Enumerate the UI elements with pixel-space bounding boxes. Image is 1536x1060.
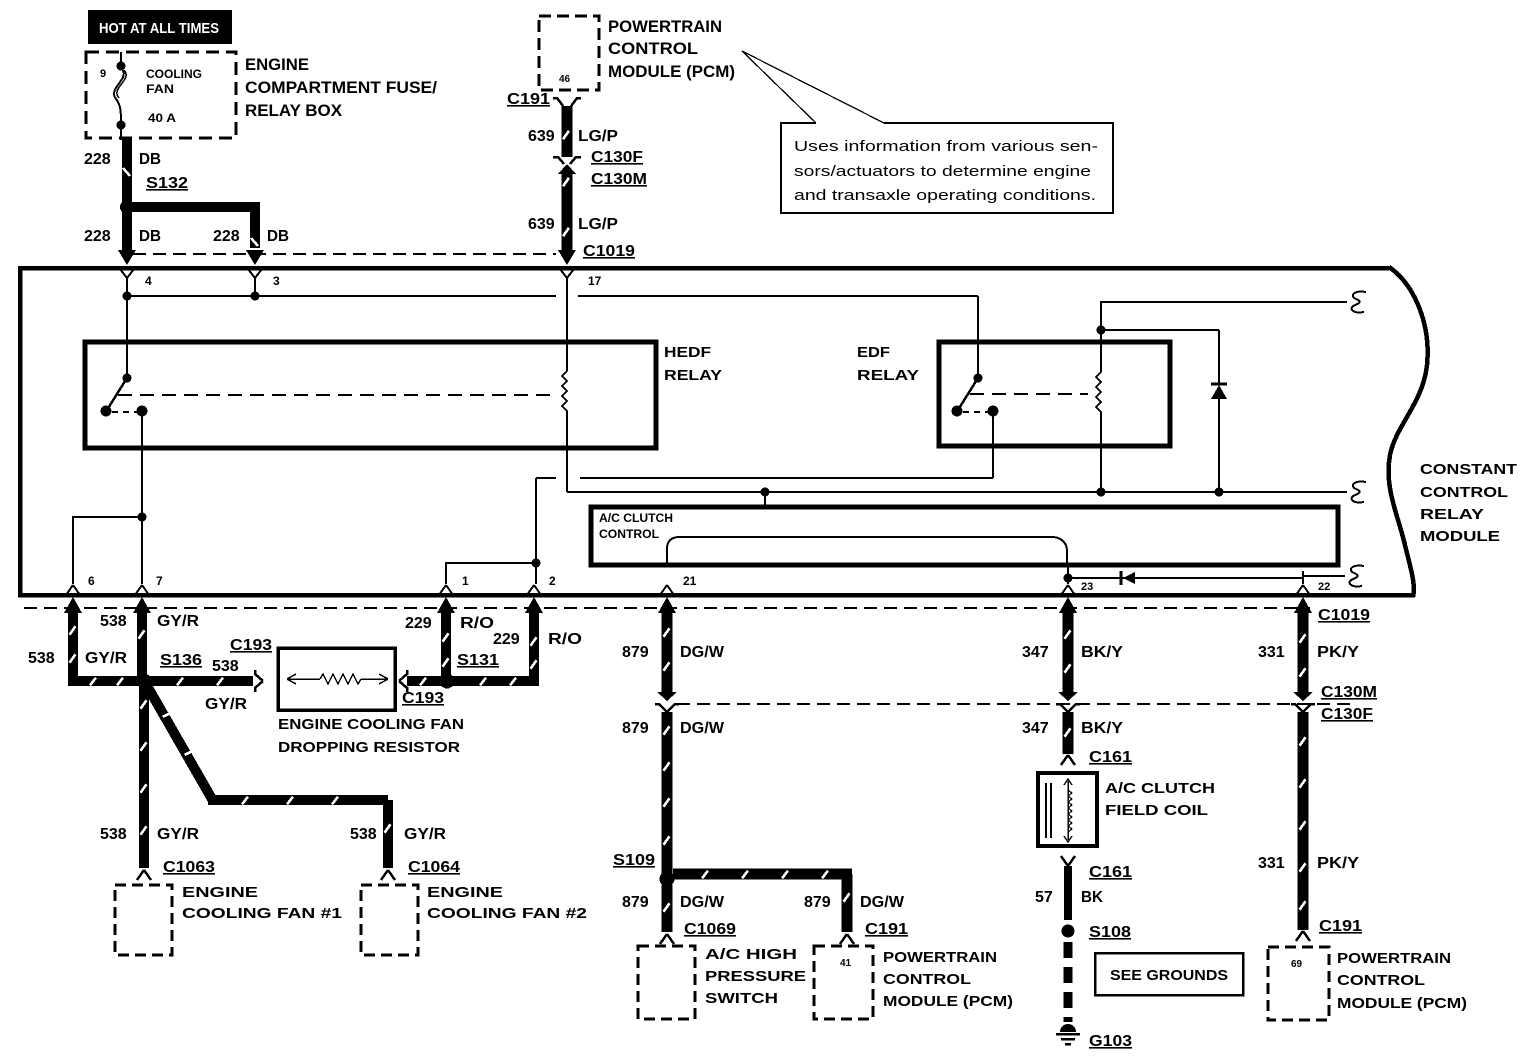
see grounds box xyxy=(1095,953,1243,995)
svg-text:RELAY BOX: RELAY BOX xyxy=(245,101,343,120)
svg-text:9: 9 xyxy=(100,68,106,80)
pin 17 (CCRM) xyxy=(560,269,574,371)
svg-text:DB: DB xyxy=(139,228,161,245)
svg-text:COOLING: COOLING xyxy=(146,67,202,81)
svg-text:40 A: 40 A xyxy=(148,111,176,125)
svg-text:879: 879 xyxy=(622,894,649,911)
svg-text:C193: C193 xyxy=(402,690,444,707)
svg-text:and transaxle operating condit: and transaxle operating conditions. xyxy=(794,187,1096,204)
svg-text:C193: C193 xyxy=(230,637,272,654)
svg-text:G103: G103 xyxy=(1089,1033,1132,1050)
svg-text:2: 2 xyxy=(549,574,556,588)
fuse: cooling fan 40A xyxy=(114,52,126,140)
wire 879 DG/W pin 21 (lower) to S109 xyxy=(662,712,673,874)
wire 347 BK/Y pin 23 (upper) xyxy=(1059,597,1077,613)
svg-text:HEDF: HEDF xyxy=(664,344,711,361)
svg-text:RELAY: RELAY xyxy=(857,367,919,384)
wire HEDF switch output to pins 6/7 xyxy=(141,411,143,517)
powertrain control module PCM (pin 41) dashed box xyxy=(814,946,873,1019)
powertrain control module PCM (top) dashed box xyxy=(539,16,599,90)
connector C193 (right) xyxy=(399,670,407,692)
svg-text:41: 41 xyxy=(840,958,852,969)
svg-text:ENGINE: ENGINE xyxy=(427,884,503,901)
connector C1019 dashed line (bottom) xyxy=(24,607,1310,609)
svg-text:R/O: R/O xyxy=(548,631,582,648)
svg-text:S136: S136 xyxy=(160,652,202,669)
svg-text:229: 229 xyxy=(405,615,432,632)
svg-text:A/C HIGH: A/C HIGH xyxy=(705,946,797,963)
svg-text:ENGINE COOLING FAN: ENGINE COOLING FAN xyxy=(278,716,464,733)
svg-text:S131: S131 xyxy=(457,652,499,669)
svg-text:538: 538 xyxy=(350,826,377,843)
wire 538 GY/R pin 7 xyxy=(133,597,151,613)
svg-text:3: 3 xyxy=(273,274,280,288)
A/C clutch control box xyxy=(591,507,1338,565)
svg-text:C130M: C130M xyxy=(591,171,647,188)
svg-text:ENGINE: ENGINE xyxy=(245,55,309,74)
svg-text:GY/R: GY/R xyxy=(157,613,199,630)
wire 879 DG/W pin 21 (upper) xyxy=(658,597,676,613)
inline connector C130M/C130F on pin-22 wire xyxy=(1293,692,1313,701)
wire 639 LG/P (upper) xyxy=(562,106,573,157)
svg-text:22: 22 xyxy=(1318,581,1330,593)
svg-text:POWERTRAIN: POWERTRAIN xyxy=(608,17,722,36)
svg-text:538: 538 xyxy=(100,826,127,843)
supply rail from pins 4/3 xyxy=(127,295,556,297)
svg-text:17: 17 xyxy=(588,274,602,288)
svg-text:DB: DB xyxy=(267,228,289,245)
engine compartment fuse/relay box (dashed) xyxy=(86,52,236,138)
svg-text:7: 7 xyxy=(156,574,163,588)
svg-text:MODULE: MODULE xyxy=(1420,528,1500,545)
wire 538 GY/R S136 to C193 xyxy=(150,676,253,686)
svg-text:GY/R: GY/R xyxy=(85,650,127,667)
EDF coil top feed and snubber diode branch xyxy=(1097,326,1106,335)
svg-text:RELAY: RELAY xyxy=(664,367,722,384)
svg-text:S109: S109 xyxy=(613,852,655,869)
HEDF relay actuation dashed link xyxy=(118,394,552,396)
svg-text:MODULE (PCM): MODULE (PCM) xyxy=(1337,995,1467,1012)
svg-text:C130M: C130M xyxy=(1321,684,1377,701)
svg-text:C1019: C1019 xyxy=(583,243,635,260)
A/C clutch control output line xyxy=(667,537,1067,565)
svg-text:331: 331 xyxy=(1258,644,1285,661)
svg-text:879: 879 xyxy=(622,720,649,737)
svg-text:S132: S132 xyxy=(146,175,188,192)
svg-text:BK/Y: BK/Y xyxy=(1081,644,1123,661)
svg-text:CONTROL: CONTROL xyxy=(1337,972,1425,989)
wire 538 GY/R S136 to fan 1 xyxy=(139,687,149,868)
svg-text:EDF: EDF xyxy=(857,344,890,361)
engine cooling fan dropping resistor xyxy=(278,648,395,710)
svg-text:LG/P: LG/P xyxy=(578,216,618,233)
svg-text:A/C CLUTCH: A/C CLUTCH xyxy=(599,511,673,525)
svg-text:C161: C161 xyxy=(1089,864,1132,881)
svg-text:538: 538 xyxy=(100,613,127,630)
svg-text:DG/W: DG/W xyxy=(860,894,905,911)
connector C161 (lower) xyxy=(1061,856,1075,866)
engine cooling fan #1 (dashed box) xyxy=(115,885,172,955)
svg-text:SWITCH: SWITCH xyxy=(705,990,778,1007)
svg-text:GY/R: GY/R xyxy=(157,826,199,843)
label: engine compartment fuse/relay box xyxy=(245,55,437,120)
wire 331 PK/Y to PCM C191 xyxy=(1298,712,1309,930)
ground G103 xyxy=(1060,1024,1076,1032)
svg-text:BK: BK xyxy=(1081,889,1103,906)
A/C clutch field coil xyxy=(1038,773,1097,846)
EDF relay box xyxy=(939,342,1170,446)
svg-text:MODULE (PCM): MODULE (PCM) xyxy=(883,993,1013,1010)
svg-text:HOT AT ALL TIMES: HOT AT ALL TIMES xyxy=(99,20,219,37)
diode (EDF coil clamp) xyxy=(1211,383,1227,386)
svg-text:FAN: FAN xyxy=(146,82,174,96)
wire 228 DB to pin 4 xyxy=(122,207,132,250)
wire 879 DG/W S109 to C1069 xyxy=(662,885,673,932)
wire 538 GY/R pin 6 xyxy=(64,597,82,613)
svg-text:BK/Y: BK/Y xyxy=(1081,720,1123,737)
svg-text:879: 879 xyxy=(804,894,831,911)
svg-text:228: 228 xyxy=(213,228,240,245)
HEDF relay coil xyxy=(562,371,567,412)
svg-text:POWERTRAIN: POWERTRAIN xyxy=(1337,950,1451,967)
common coil-return line xyxy=(566,490,568,492)
HEDF relay switch xyxy=(126,296,128,376)
EDF relay coil xyxy=(1096,372,1101,414)
svg-text:R/O: R/O xyxy=(460,615,494,632)
svg-text:C161: C161 xyxy=(1089,749,1132,766)
svg-text:23: 23 xyxy=(1081,581,1093,593)
svg-text:MODULE (PCM): MODULE (PCM) xyxy=(608,62,735,81)
svg-text:DROPPING RESISTOR: DROPPING RESISTOR xyxy=(278,739,460,756)
EDF relay actuation dashed link xyxy=(970,393,1088,395)
svg-text:C191: C191 xyxy=(1319,918,1362,935)
pin 4 (CCRM) xyxy=(120,269,134,296)
svg-text:CONTROL: CONTROL xyxy=(883,971,971,988)
svg-text:LG/P: LG/P xyxy=(578,128,618,145)
svg-text:DG/W: DG/W xyxy=(680,894,725,911)
pin 23 junction and diode line to pin 22 xyxy=(1064,574,1073,583)
svg-text:4: 4 xyxy=(145,274,152,288)
svg-text:C1063: C1063 xyxy=(163,859,215,876)
svg-text:RELAY: RELAY xyxy=(1420,506,1484,523)
svg-text:DG/W: DG/W xyxy=(680,720,725,737)
svg-text:538: 538 xyxy=(212,658,239,675)
svg-text:C1069: C1069 xyxy=(684,921,736,938)
pin 3 (CCRM) xyxy=(248,269,262,296)
svg-text:CONTROL: CONTROL xyxy=(608,39,698,58)
svg-text:538: 538 xyxy=(28,650,55,667)
wire 228 DB branch to pin 3 xyxy=(127,207,255,248)
wire 538 GY/R S136 to fan 2 (diagonal) xyxy=(146,684,212,799)
svg-text:57: 57 xyxy=(1035,889,1053,906)
svg-text:Uses information from various: Uses information from various sen- xyxy=(794,138,1098,155)
wire 347 BK/Y to C161 xyxy=(1063,712,1074,754)
svg-text:21: 21 xyxy=(683,574,697,588)
svg-text:639: 639 xyxy=(528,128,555,145)
svg-text:347: 347 xyxy=(1022,720,1049,737)
svg-text:69: 69 xyxy=(1291,959,1303,970)
svg-text:PRESSURE: PRESSURE xyxy=(705,968,806,985)
svg-text:C130F: C130F xyxy=(591,149,643,166)
svg-text:879: 879 xyxy=(622,644,649,661)
svg-text:46: 46 xyxy=(559,74,571,85)
svg-text:GY/R: GY/R xyxy=(205,696,247,713)
svg-text:C1064: C1064 xyxy=(408,859,460,876)
svg-text:FIELD COIL: FIELD COIL xyxy=(1105,802,1208,819)
svg-text:S108: S108 xyxy=(1089,924,1131,941)
A/C high pressure switch (dashed box) xyxy=(638,946,695,1019)
powertrain control module PCM (pin 69) dashed box xyxy=(1268,947,1329,1020)
svg-text:sors/actuators to determine en: sors/actuators to determine engine xyxy=(794,163,1091,180)
EDF relay switch xyxy=(977,296,979,376)
inline connector C130F/C130M xyxy=(553,157,581,164)
svg-text:C1019: C1019 xyxy=(1318,607,1370,624)
svg-text:DG/W: DG/W xyxy=(680,644,725,661)
svg-text:SEE GROUNDS: SEE GROUNDS xyxy=(1110,967,1228,984)
svg-text:ENGINE: ENGINE xyxy=(182,884,258,901)
engine cooling fan #2 (dashed box) xyxy=(361,885,418,955)
svg-text:228: 228 xyxy=(84,151,111,168)
wire 229 R/O to pin 1 xyxy=(437,597,455,613)
svg-text:PK/Y: PK/Y xyxy=(1317,644,1359,661)
inline connector on pin-21 wire xyxy=(657,692,677,701)
svg-text:CONTROL: CONTROL xyxy=(599,527,659,541)
callout note box with pointer xyxy=(742,51,1113,213)
wire 57 BK to S108 xyxy=(1064,866,1072,920)
svg-text:COMPARTMENT FUSE/: COMPARTMENT FUSE/ xyxy=(245,78,437,97)
svg-text:1: 1 xyxy=(462,574,469,588)
svg-text:C130F: C130F xyxy=(1321,706,1373,723)
HEDF relay box xyxy=(85,342,656,448)
connector C1019 dashed line (top) xyxy=(133,253,556,255)
svg-text:CONTROL: CONTROL xyxy=(1420,484,1508,501)
S continuation squiggles xyxy=(1352,292,1366,313)
svg-text:PK/Y: PK/Y xyxy=(1317,855,1359,872)
wire EDF switch output to pins 1/2 xyxy=(992,411,994,478)
svg-text:COOLING FAN #1: COOLING FAN #1 xyxy=(182,905,342,922)
svg-text:GY/R: GY/R xyxy=(404,826,446,843)
svg-text:POWERTRAIN: POWERTRAIN xyxy=(883,949,997,966)
svg-text:228: 228 xyxy=(84,228,111,245)
svg-text:DB: DB xyxy=(139,151,161,168)
svg-text:229: 229 xyxy=(493,631,520,648)
svg-text:6: 6 xyxy=(88,574,95,588)
wire 228 DB from fuse to S132 xyxy=(122,138,132,205)
hot-at-all-times label box xyxy=(88,10,232,44)
splice S108 xyxy=(1062,925,1075,938)
wire 639 LG/P (lower) xyxy=(562,172,573,252)
svg-text:347: 347 xyxy=(1022,644,1049,661)
wire 879 DG/W S109 branch to PCM C191 xyxy=(673,869,852,880)
inline connector on pin-23 wire xyxy=(1058,692,1078,701)
wire C193 to S131 xyxy=(407,676,443,686)
svg-text:C191: C191 xyxy=(865,921,908,938)
svg-text:COOLING FAN #2: COOLING FAN #2 xyxy=(427,905,587,922)
svg-text:331: 331 xyxy=(1258,855,1285,872)
CCRM bottom pins xyxy=(66,585,1310,595)
wire 229 R/O to pin 2 xyxy=(451,613,534,681)
dashed ground wire to G103 xyxy=(1064,942,1073,1022)
svg-text:A/C CLUTCH: A/C CLUTCH xyxy=(1105,780,1215,797)
svg-text:639: 639 xyxy=(528,216,555,233)
svg-text:C191: C191 xyxy=(507,91,550,108)
wire 331 PK/Y pin 22 (upper) xyxy=(1294,597,1312,613)
dashed inline-connector line (C130M/C130F level) xyxy=(677,703,1353,705)
svg-text:CONSTANT: CONSTANT xyxy=(1420,461,1517,478)
CCRM constant control relay module outline xyxy=(20,268,1414,595)
